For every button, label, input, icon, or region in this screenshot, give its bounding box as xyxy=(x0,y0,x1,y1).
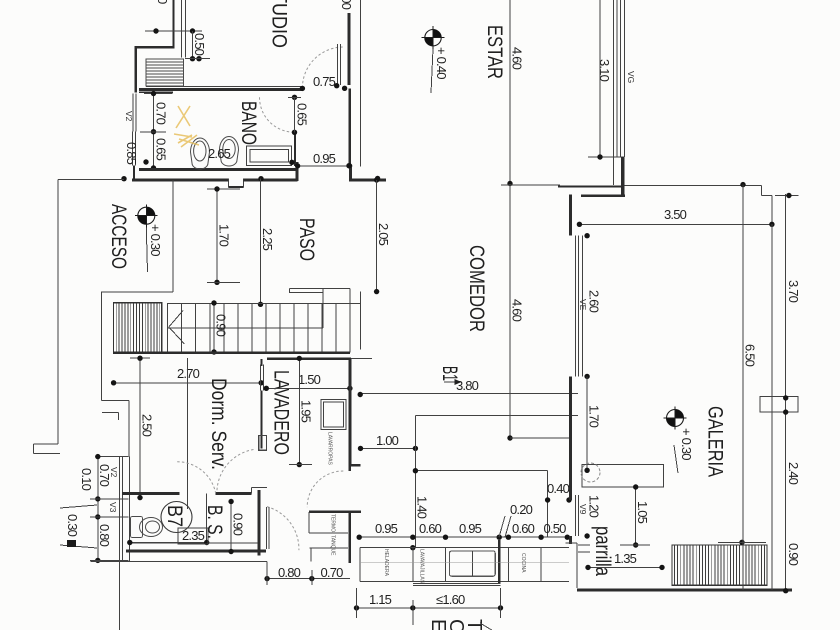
dim 2.05 xyxy=(376,180,378,292)
yellow highlight marks bano xyxy=(174,106,199,147)
dims 0.80 0.70 xyxy=(267,578,350,580)
door leaf corridor xyxy=(266,507,268,549)
leader line 0.30 xyxy=(146,227,147,272)
bidet xyxy=(191,138,210,169)
north symbol +0.30 acceso xyxy=(135,204,158,227)
window V2 bano left xyxy=(132,94,134,132)
lavadero left wall xyxy=(260,359,262,366)
wall bano bottom xyxy=(139,168,297,171)
svg-text:2.25: 2.25 xyxy=(260,228,275,251)
bs mid wall xyxy=(206,493,208,542)
toilet xyxy=(220,137,239,167)
svg-text:2.65: 2.65 xyxy=(208,146,231,161)
svg-text:VE: VE xyxy=(578,299,588,311)
svg-text:0.80: 0.80 xyxy=(278,565,301,580)
toilet b7 xyxy=(131,517,163,538)
svg-text:COMEDOR: COMEDOR xyxy=(465,245,488,332)
svg-text:LAVAVAJILLAS: LAVAVAJILLAS xyxy=(419,549,425,584)
svg-text:1.00: 1.00 xyxy=(376,433,399,448)
svg-text:0.95: 0.95 xyxy=(459,521,482,536)
dim 1.50 lavadero xyxy=(266,387,350,389)
svg-text:0.95: 0.95 xyxy=(313,151,336,166)
svg-text:0.60: 0.60 xyxy=(512,521,535,536)
svg-text:1.50: 1.50 xyxy=(298,372,321,387)
svg-text:1.05: 1.05 xyxy=(635,501,650,524)
wall bano right xyxy=(294,132,296,166)
dim line 4.60 estar xyxy=(509,0,511,184)
svg-text:0.95: 0.95 xyxy=(375,521,398,536)
svg-text:4.60: 4.60 xyxy=(510,47,525,70)
svg-text:3.80: 3.80 xyxy=(456,378,479,393)
svg-text:B. S.: B. S. xyxy=(203,505,226,539)
column box right xyxy=(760,396,798,412)
dim line 2.35 xyxy=(130,542,207,544)
acceso walk edge xyxy=(172,180,174,292)
kitchen dim row xyxy=(359,536,567,538)
svg-text:1.15: 1.15 xyxy=(369,592,392,607)
svg-text:2.40: 2.40 xyxy=(786,462,801,485)
dim 1.00 xyxy=(361,447,416,449)
bottom dims 1.15 1.60 xyxy=(357,607,501,609)
svg-text:GALERIA: GALERIA xyxy=(704,406,727,477)
svg-text:0.60: 0.60 xyxy=(419,521,442,536)
kitchen outline xyxy=(414,416,416,471)
window glass top-left xyxy=(181,0,183,58)
kitchen hall step xyxy=(310,547,349,549)
stove xyxy=(450,551,496,576)
svg-text:0.90: 0.90 xyxy=(214,314,229,337)
dim 3.80 B1 xyxy=(360,392,578,394)
svg-text:Dorm. Serv.: Dorm. Serv. xyxy=(207,378,230,470)
wall bano top-left xyxy=(139,91,173,93)
wall estar south xyxy=(501,184,560,186)
svg-text:ACCESO: ACCESO xyxy=(107,204,130,269)
svg-text:0.75: 0.75 xyxy=(313,74,336,89)
wall studio right xyxy=(347,13,350,85)
wall paso top xyxy=(132,178,228,181)
door arc bs-kitchen xyxy=(267,507,299,551)
svg-text:2.35: 2.35 xyxy=(182,528,205,543)
wall horiz top-left xyxy=(135,46,175,48)
svg-text:LAVADERO: LAVADERO xyxy=(270,370,293,455)
svg-text:ESTAR: ESTAR xyxy=(483,25,506,79)
wall studio bottom xyxy=(139,88,303,91)
window VG top right xyxy=(614,0,625,157)
svg-text:6.50: 6.50 xyxy=(743,344,758,367)
svg-text:1.35: 1.35 xyxy=(614,551,637,566)
svg-text:0.30: 0.30 xyxy=(65,514,80,537)
wall dorm serv west xyxy=(128,401,130,457)
door arcs dorm serv xyxy=(177,462,215,493)
dim 4.60 comedor xyxy=(509,184,511,438)
wall kitchen south-west steps xyxy=(569,536,572,544)
svg-text:3.70: 3.70 xyxy=(786,280,801,303)
door leaf lavadero xyxy=(260,365,262,391)
svg-text:2.50: 2.50 xyxy=(140,414,155,437)
door arc corridor-kitchen xyxy=(307,471,343,507)
door leaf studio xyxy=(337,44,339,85)
0.30 leader xyxy=(60,505,97,508)
dim 1.95 lavadero xyxy=(298,358,300,464)
svg-text:0.90: 0.90 xyxy=(786,543,801,566)
svg-text:2.00: 2.00 xyxy=(339,0,354,10)
svg-text:TERMO- TANQUE: TERMO- TANQUE xyxy=(330,514,336,556)
wall stair bottom xyxy=(113,352,350,354)
svg-text:4.60: 4.60 xyxy=(510,299,525,322)
svg-text:≤1.60: ≤1.60 xyxy=(436,592,465,607)
parrilla steps xyxy=(578,544,590,546)
svg-text:0.85: 0.85 xyxy=(124,142,139,165)
svg-text:STUDIO: STUDIO xyxy=(268,0,291,48)
dim 0.90 bs xyxy=(230,502,232,552)
svg-text:+ 0.40: + 0.40 xyxy=(434,47,449,79)
dim 0.90 stairs xyxy=(213,303,215,352)
long thin vertical line xyxy=(118,457,120,630)
svg-text:LAVARROPAS: LAVARROPAS xyxy=(327,432,333,465)
dim 1.70 galeria xyxy=(586,376,588,470)
door arc bano xyxy=(260,97,295,132)
dim 0.70 bano xyxy=(153,94,155,169)
svg-text:1.95: 1.95 xyxy=(299,400,314,423)
window VE xyxy=(575,236,577,377)
corner lavadero-corridor xyxy=(349,466,351,471)
svg-text:0.65: 0.65 xyxy=(154,138,169,161)
wall face line right xyxy=(359,0,361,167)
bottom cut text xyxy=(427,619,485,630)
svg-text:0.70: 0.70 xyxy=(321,565,344,580)
svg-text:3.50: 3.50 xyxy=(664,207,687,222)
bs right wall notch xyxy=(251,486,267,488)
wall bano left lower double xyxy=(132,132,134,166)
svg-text:HELADERA: HELADERA xyxy=(383,549,389,577)
svg-text:1.40: 1.40 xyxy=(415,496,430,519)
svg-text:V3: V3 xyxy=(108,502,118,513)
svg-text:0.80: 0.80 xyxy=(97,524,112,547)
svg-text:parrilla: parrilla xyxy=(591,526,614,576)
stair arrow xyxy=(169,311,183,328)
north symbol galeria xyxy=(664,407,687,430)
vanity counter bano xyxy=(247,146,292,166)
svg-text:0: 0 xyxy=(155,0,170,4)
termo closet xyxy=(309,511,361,513)
svg-text:V9: V9 xyxy=(578,504,588,515)
north symbol +0.40 xyxy=(422,26,445,49)
extension line door dorm serv xyxy=(186,358,188,509)
door arc studio xyxy=(302,47,343,88)
washer xyxy=(321,400,346,430)
outer face line bottom left xyxy=(90,560,267,562)
svg-text:COCINA: COCINA xyxy=(520,553,526,573)
wall lavadero top xyxy=(267,358,351,360)
wall comedor east xyxy=(569,195,572,236)
svg-text:0.90: 0.90 xyxy=(231,513,246,536)
wall stairs bottom xyxy=(146,85,302,87)
lavadero right wall xyxy=(349,359,352,466)
left boundary xyxy=(57,180,59,445)
dim 3.50 xyxy=(579,223,772,225)
dim line 3.10 xyxy=(599,0,601,157)
svg-text:0.65: 0.65 xyxy=(295,103,310,126)
svg-text:V2: V2 xyxy=(124,111,134,122)
b7 bs bottom wall xyxy=(126,550,266,553)
galeria deck grating xyxy=(672,545,767,585)
dim 0.65 bano xyxy=(140,131,166,133)
wall below VE xyxy=(569,376,572,462)
wall jog paso right xyxy=(349,166,352,181)
wall paso right upper xyxy=(348,88,351,167)
svg-text:0.50: 0.50 xyxy=(544,521,567,536)
dim line 0.50 top xyxy=(145,30,202,32)
svg-text:0.10: 0.10 xyxy=(79,468,94,491)
svg-text:1.70: 1.70 xyxy=(217,224,232,247)
svg-text:V2: V2 xyxy=(109,467,119,478)
svg-text:B7: B7 xyxy=(163,505,186,527)
galeria bottom wall xyxy=(577,589,792,592)
galeria north edge thin xyxy=(625,184,762,186)
svg-text:0.50: 0.50 xyxy=(192,33,207,56)
dim 2.70 xyxy=(114,382,262,384)
window V9 xyxy=(569,462,572,500)
wall stub bano-paso xyxy=(133,166,135,181)
dim col x97.8 xyxy=(97,457,99,561)
left wall with windows V2 V3 xyxy=(121,457,123,561)
dim 0.65 bano door xyxy=(294,97,296,132)
dim 2.25 xyxy=(260,179,262,305)
dim 1.05 xyxy=(635,487,637,545)
svg-text:2.05: 2.05 xyxy=(376,223,391,246)
svg-text:VG: VG xyxy=(626,71,636,83)
galeria bench xyxy=(582,464,664,487)
stairs hatch top-left xyxy=(146,59,184,86)
wall below VG xyxy=(621,157,624,197)
b7 bs top wall xyxy=(122,492,180,495)
svg-text:0.40: 0.40 xyxy=(547,481,570,496)
leader line 0.40 xyxy=(431,49,433,93)
kitchen appliance band xyxy=(360,547,569,549)
wall outer left xyxy=(135,46,137,92)
svg-text:+ 0.30: + 0.30 xyxy=(148,224,163,256)
stair upper landing box xyxy=(289,288,350,290)
svg-text:3.10: 3.10 xyxy=(597,59,612,82)
svg-text:+ 0.30: + 0.30 xyxy=(679,428,694,460)
B7 circle label xyxy=(161,502,192,533)
svg-text:0.70: 0.70 xyxy=(154,102,169,125)
dim 2.50 xyxy=(139,358,141,497)
svg-text:0.20: 0.20 xyxy=(510,502,533,517)
dim 1.70 xyxy=(216,189,218,282)
svg-text:2.70: 2.70 xyxy=(177,366,200,381)
svg-text:BANO: BANO xyxy=(237,101,260,145)
right boundary lines xyxy=(742,185,744,590)
stair block xyxy=(168,304,350,353)
svg-text:1.70: 1.70 xyxy=(587,405,602,428)
grating hatch acceso xyxy=(114,303,162,353)
dim 0.95 bano right xyxy=(298,165,350,167)
wall studio left upper xyxy=(172,0,174,48)
svg-text:PASO: PASO xyxy=(295,218,318,261)
